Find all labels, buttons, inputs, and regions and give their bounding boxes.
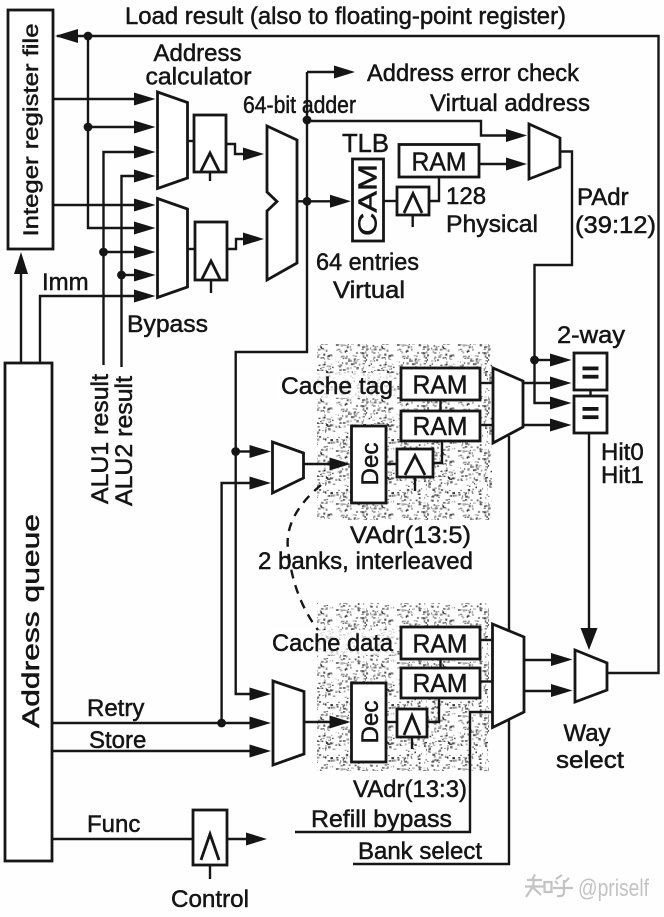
- junction dot virtual address branch: [303, 116, 312, 125]
- wire: upper calc latch clock stub: [209, 172, 211, 181]
- wire: control latch clock stub: [209, 865, 211, 879]
- wire: main result vertical x=307 down, across y=352, down x=235.7 to data mux: [236, 72, 307, 694]
- svg-text:Virtual: Virtual: [333, 277, 405, 304]
- svg-text:Bank select: Bank select: [358, 838, 482, 865]
- wire: tag RAM2 to tag output mux: [480, 424, 493, 426]
- wire: load-result vertical feed x=88 with branches to operand muxes: [88, 36, 136, 228]
- wire: data way 0 to way select mux: [524, 659, 551, 661]
- wire: hit result down to way select: [588, 433, 590, 631]
- svg-text:RAM: RAM: [413, 668, 468, 698]
- box: Integer register file: [8, 10, 53, 249]
- svg-text:RAM: RAM: [412, 147, 467, 177]
- svg-text:ALU2 result: ALU2 result: [111, 376, 138, 506]
- junction dot x=88 upper branch: [84, 123, 93, 132]
- svg-text:Load result (also to floating-: Load result (also to floating-point regi…: [125, 3, 566, 30]
- cache data stipple background: [317, 603, 489, 771]
- latch: control pipeline register: [193, 810, 227, 865]
- wire: branch of x=88 line into upper mux input 2: [88, 126, 136, 128]
- wire: register file read port 2 to lower mux: [53, 204, 136, 206]
- wire: upper latch to 64-bit adder: [226, 144, 245, 154]
- arrowhead: data index mux input 1: [250, 688, 272, 701]
- svg-text:CAM: CAM: [353, 164, 383, 236]
- clock chevron of TLB latch: [404, 194, 422, 214]
- box: TLB RAM: [399, 145, 479, 178]
- wire: TLB latch up to TLB RAM: [429, 177, 439, 201]
- arrowhead: upper latch to adder: [243, 148, 264, 161]
- svg-text:(39:12): (39:12): [575, 212, 656, 239]
- svg-text:Refill bypass: Refill bypass: [311, 806, 452, 833]
- wire: Refill bypass line: [295, 712, 493, 832]
- svg-text:calculator: calculator: [146, 64, 252, 91]
- arrowhead: comparator2 input PAdr: [550, 397, 572, 410]
- wire: Retry from address queue: [52, 722, 250, 724]
- white backing for Cache data label: [271, 630, 395, 655]
- wire: Imm from address queue to lower mux: [40, 296, 136, 362]
- latch: cache tag index register: [397, 449, 433, 477]
- wire: ALU2 result line: [122, 176, 137, 367]
- svg-text:Dec: Dec: [357, 701, 384, 744]
- box: TLB CAM: [353, 159, 384, 241]
- arrowhead: into TLB CAM: [330, 195, 351, 208]
- junction dot tag index: [231, 447, 240, 456]
- latch: upper address calculator pipeline register: [194, 115, 226, 172]
- mux: cache tag index select: [273, 442, 304, 493]
- junction dot ALU2 branch: [117, 271, 126, 280]
- box: cache data decoder Dec: [352, 683, 387, 762]
- comparator: hit 0: [574, 353, 607, 390]
- arrowhead: into data Dec: [330, 716, 351, 729]
- wire: data latch clock stub: [411, 737, 413, 749]
- mux: lower operand select: [158, 199, 188, 298]
- clock chevron of tag latch: [405, 456, 425, 476]
- svg-text:Address queue: Address queue: [18, 514, 45, 728]
- arrowhead: PAdr mux input 1: [506, 129, 527, 142]
- svg-text:PAdr: PAdr: [577, 184, 629, 211]
- wire: data RAM1-RAM2 link: [439, 659, 441, 668]
- arrowhead: upper mux input 2: [134, 121, 156, 134]
- arrowhead: upper mux input 4 (ALU2): [134, 170, 156, 183]
- svg-text:Dec: Dec: [357, 443, 384, 486]
- clock chevron of lower latch: [202, 261, 220, 279]
- clock chevron of control latch: [201, 834, 219, 860]
- wire: tag RAM1 to tag output mux: [480, 382, 493, 384]
- svg-text:64 entries: 64 entries: [316, 249, 419, 276]
- cache tag stipple background: [317, 344, 492, 520]
- arrowhead: lower mux input 5 (Imm): [134, 290, 156, 303]
- wire: TLB RAM output to PAdr mux input 2: [479, 163, 506, 165]
- box: cache tag RAM bank 1: [401, 411, 480, 441]
- wire: register file read port 1 to upper mux: [53, 98, 136, 100]
- arrowhead: address queue up into register file: [14, 252, 28, 274]
- arrowhead: data index mux input 2 (Retry): [250, 717, 272, 730]
- svg-text:2-way: 2-way: [557, 322, 625, 349]
- arrowhead: comparator1 input tag way0: [550, 377, 572, 390]
- svg-text:Cache tag: Cache tag: [281, 373, 393, 400]
- arrowhead: upper mux input 1: [134, 93, 156, 106]
- wire: link between comparators: [589, 390, 591, 396]
- arrowhead: lower mux input 3: [134, 246, 156, 259]
- wire: tag RAM1-RAM2 link: [439, 400, 441, 411]
- wire: Load result bus (top, right side return from Way select): [57, 36, 659, 673]
- arrowhead: lower mux input 1: [134, 199, 156, 212]
- watermark: zhihu glyph 1: [525, 875, 552, 898]
- svg-text:64-bit adder: 64-bit adder: [243, 92, 356, 119]
- arrowhead: lower mux input 4: [134, 269, 156, 282]
- wire: CAM to TLB latch: [384, 200, 398, 202]
- svg-text:RAM: RAM: [413, 629, 468, 659]
- equal sign of comparator 0: [583, 367, 599, 379]
- svg-text:select: select: [556, 747, 624, 774]
- wire: retry feed up to tag index mux input 2: [222, 483, 250, 723]
- wire: ALU1 result branch to lower mux: [104, 251, 137, 253]
- svg-text:TLB: TLB: [342, 128, 389, 158]
- arrowhead: upper mux input 3 (ALU1): [134, 146, 156, 159]
- arrowhead: control latch output: [246, 833, 267, 846]
- wire: to Address error check: [307, 71, 334, 73]
- arrowhead: tag index mux input 1: [250, 445, 272, 458]
- wire: Store from address queue: [52, 750, 250, 752]
- arrowhead: comparator1 input PAdr: [550, 354, 572, 367]
- arrowhead: data index mux input 3 (Store): [250, 745, 272, 758]
- wire: lower calc latch clock stub: [210, 280, 212, 293]
- wire: ALU2 result branch to lower mux: [122, 274, 137, 276]
- svg-text:@priself: @priself: [578, 875, 649, 902]
- svg-text:VAdr(13:5): VAdr(13:5): [350, 522, 471, 549]
- mux: way select: [575, 650, 607, 702]
- wire: ALU1 result line: [104, 152, 137, 365]
- box: cache data RAM bank 0: [401, 627, 480, 659]
- wire: PAdr into comparator 1: [535, 359, 551, 361]
- wire: data RAM1 to data output mux: [480, 639, 493, 641]
- arrowhead: hit down into way select: [581, 628, 598, 650]
- wire: adder output to TLB CAM: [307, 200, 330, 202]
- wire: upper mux to upper latch: [188, 140, 195, 142]
- wire: lower latch to 64-bit adder: [227, 239, 245, 249]
- wire: data latch up to data RAM2: [427, 698, 439, 722]
- latch: lower address calculator pipeline register: [195, 222, 227, 280]
- svg-text:Retry: Retry: [87, 695, 144, 722]
- mux: virtual address select (PAdr): [529, 124, 560, 179]
- wire: TLB latch clock stub: [412, 215, 414, 227]
- latch: cache data index register: [397, 709, 427, 737]
- wire: tag latch clock stub: [414, 477, 416, 491]
- wire: data index mux output to Dec: [304, 721, 330, 723]
- svg-text:Hit1: Hit1: [601, 462, 644, 489]
- wire: data way 1 to way select mux: [524, 690, 551, 692]
- arrowhead: PAdr mux input 2: [506, 158, 527, 171]
- wire: tag way 0 to comparator 1: [523, 382, 550, 384]
- equal sign of comparator 1: [583, 407, 599, 419]
- svg-text:Address error check: Address error check: [367, 60, 580, 87]
- mux: cache data index select: [273, 681, 304, 765]
- box: cache tag RAM bank 0: [401, 368, 480, 400]
- arrowhead: address error check: [334, 66, 355, 79]
- adder: 64-bit adder ALU symbol: [267, 126, 297, 280]
- svg-text:2 banks, interleaved: 2 banks, interleaved: [258, 548, 473, 575]
- arrowhead: comparator2 input tag way1: [550, 419, 572, 432]
- mux: upper operand select: [158, 92, 188, 189]
- svg-text:Cache data: Cache data: [272, 630, 394, 657]
- box: cache tag decoder Dec: [352, 426, 387, 503]
- wire: Bank select line to both cache muxes: [353, 436, 509, 864]
- arrowhead: lower mux input 2: [134, 222, 156, 235]
- wire: tag index mux output to Dec: [304, 463, 331, 465]
- svg-text:Virtual address: Virtual address: [430, 90, 590, 117]
- svg-text:Way: Way: [563, 720, 610, 747]
- junction dot PAdr at comparators: [530, 356, 539, 365]
- white backing for Cache tag label: [276, 373, 394, 398]
- svg-text:RAM: RAM: [413, 411, 468, 441]
- wire: PAdr mux output down to comparators, PAdr(39:12): [535, 152, 573, 361]
- svg-text:Control: Control: [171, 886, 249, 913]
- wire: control latch output: [227, 838, 247, 840]
- wire: lower mux to lower latch: [188, 248, 196, 250]
- wire: PAdr down into comparator 2: [535, 360, 551, 403]
- wire: data Dec to data latch: [386, 721, 397, 723]
- wire: branch to cache tag index mux input 1: [236, 450, 250, 452]
- svg-text:Bypass: Bypass: [127, 311, 208, 338]
- wire: address queue up to integer register file: [20, 272, 22, 362]
- junction dot ALU1 branch: [99, 248, 108, 257]
- junction dot on load result line: [84, 32, 93, 41]
- svg-text:Physical: Physical: [446, 211, 538, 238]
- box: cache data RAM bank 1: [401, 668, 480, 698]
- junction dot retry line: [217, 719, 226, 728]
- svg-text:Imm: Imm: [42, 269, 89, 296]
- arrowhead: way select input 0: [551, 653, 573, 666]
- wire: data RAM2 to data output mux: [480, 680, 493, 682]
- svg-text:VAdr(13:3): VAdr(13:3): [353, 776, 467, 803]
- box: Address queue: [5, 363, 52, 861]
- clock chevron of upper latch: [201, 153, 219, 171]
- watermark: zhihu glyph 2: [553, 875, 573, 896]
- svg-text:Integer register file: Integer register file: [19, 24, 43, 237]
- wire: dashed callout from banks to Cache data: [288, 485, 321, 630]
- comparator: hit 1: [574, 396, 607, 433]
- wire: tag Dec to tag latch: [386, 463, 397, 465]
- junction dot adder output node: [303, 197, 312, 206]
- mux: cache data way output: [493, 624, 525, 728]
- arrowhead: way select input 1: [551, 684, 573, 697]
- wire: Func from address queue to control latch: [52, 838, 193, 840]
- mux: cache tag way output: [493, 368, 523, 443]
- svg-text:RAM: RAM: [413, 370, 468, 400]
- arrowhead: tag index mux input 2: [250, 477, 272, 490]
- latch: TLB pipeline register: [397, 187, 429, 215]
- wire: adder output to main vertical node: [297, 200, 307, 202]
- clock chevron of data latch: [404, 716, 420, 736]
- arrowhead: into tag Dec: [330, 458, 351, 471]
- arrowhead: load result into register file: [55, 29, 78, 43]
- wire: virtual address to PAdr mux input 1: [307, 121, 506, 136]
- arrowhead: lower latch to adder: [243, 233, 264, 246]
- svg-text:128: 128: [446, 183, 486, 210]
- svg-text:Store: Store: [89, 727, 146, 754]
- wire: tag latch up to tag RAM2: [433, 441, 442, 463]
- svg-text:ALU1 result: ALU1 result: [87, 374, 114, 504]
- wire: tag way 1 to comparator 2: [523, 424, 550, 426]
- svg-text:Func: Func: [87, 811, 140, 838]
